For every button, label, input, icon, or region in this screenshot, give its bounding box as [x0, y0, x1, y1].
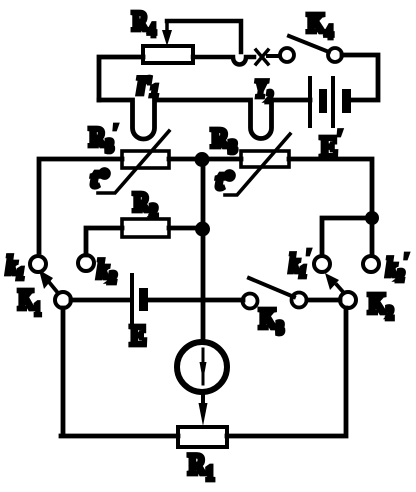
svg-text:R3′: R3′ — [89, 122, 118, 156]
svg-text:K2: K2 — [368, 288, 394, 324]
potentiometer R4 — [143, 46, 193, 63]
wire battery to K3 — [148, 298, 243, 303]
wire R4 right with crossover dip — [193, 57, 254, 65]
label R2 — [133, 188, 158, 221]
label k1' — [289, 247, 311, 282]
wire wiper feedback loop — [167, 21, 241, 52]
svg-text:k2: k2 — [97, 256, 116, 287]
label t deg right — [216, 166, 234, 195]
label k1 — [6, 252, 24, 283]
battery E — [132, 275, 148, 322]
label R4 — [132, 7, 156, 40]
wire top-left corner (R4 left terminal to bus) — [99, 57, 143, 100]
wire galvanometer to R1 wiper arrow — [199, 392, 208, 426]
svg-text:E: E — [130, 319, 146, 351]
label R3' — [89, 122, 118, 156]
switch K2 pivot and blade — [325, 273, 356, 308]
switch K3 — [243, 278, 307, 309]
wire K2 down and bottom right — [227, 308, 346, 436]
label E' — [320, 126, 342, 165]
label r1 — [137, 62, 158, 102]
svg-text:K1: K1 — [18, 284, 41, 320]
junction node right — [365, 211, 379, 225]
junction node center tap — [195, 152, 210, 167]
contact k1 — [30, 256, 46, 272]
wire R3 right down to junction — [289, 159, 372, 212]
label Y2 — [255, 74, 273, 106]
wire K1 down and bottom left — [61, 308, 178, 436]
switch K1 pivot and blade — [39, 270, 71, 308]
svg-text:k2′: k2′ — [386, 251, 408, 285]
battery E' — [310, 78, 351, 126]
galvanometer — [177, 342, 227, 392]
svg-text:k1: k1 — [6, 252, 24, 283]
svg-text:R4: R4 — [132, 7, 156, 40]
wire bus with loops — [99, 100, 310, 139]
contact k2' — [363, 256, 379, 272]
wire R2 right to center line — [169, 226, 203, 231]
junction node R2 — [195, 222, 210, 237]
wiper of R4 — [162, 22, 172, 46]
svg-text:t°: t° — [91, 164, 109, 193]
wire junction to contact k2' — [370, 224, 375, 255]
svg-text:t°: t° — [216, 166, 234, 195]
label K3 — [259, 304, 284, 339]
thermistor R3 — [225, 134, 290, 195]
center wire from tap to galvanometer — [201, 165, 206, 341]
X mark on wire — [256, 50, 268, 64]
label R3 — [211, 123, 237, 157]
wire K4 to battery right — [342, 55, 378, 100]
svg-text:R1: R1 — [188, 448, 214, 486]
label t deg left — [91, 164, 109, 193]
svg-text:K3: K3 — [259, 304, 284, 339]
wire X to K4 — [268, 54, 279, 58]
wire R3' left to contact k1 — [39, 159, 122, 252]
svg-text:Y2: Y2 — [255, 74, 273, 106]
wire K1 to battery E — [71, 298, 130, 303]
label K1 — [18, 284, 41, 320]
switch K4 — [280, 36, 342, 62]
label K4 — [307, 9, 333, 42]
wire R2 left to contact k2 — [86, 228, 122, 255]
svg-text:R2: R2 — [133, 188, 158, 221]
wire junction to contact k1' — [322, 218, 372, 255]
resistor R2 — [122, 219, 169, 237]
label K2 — [368, 288, 394, 324]
potentiometer R1 — [178, 427, 227, 447]
svg-text:R3: R3 — [211, 123, 237, 157]
thermistor R3' — [98, 131, 169, 193]
label R1 — [188, 448, 214, 486]
contact k2 — [78, 255, 94, 271]
wire K3 to K2 — [307, 298, 340, 303]
wire between thermistors — [169, 157, 241, 162]
label k2' — [386, 251, 408, 285]
contact k1' — [314, 256, 330, 272]
label E — [130, 319, 146, 351]
svg-text:K4: K4 — [307, 9, 333, 42]
label k2 — [97, 256, 116, 287]
svg-text:r1: r1 — [137, 62, 158, 102]
svg-text:k1′: k1′ — [289, 247, 311, 282]
